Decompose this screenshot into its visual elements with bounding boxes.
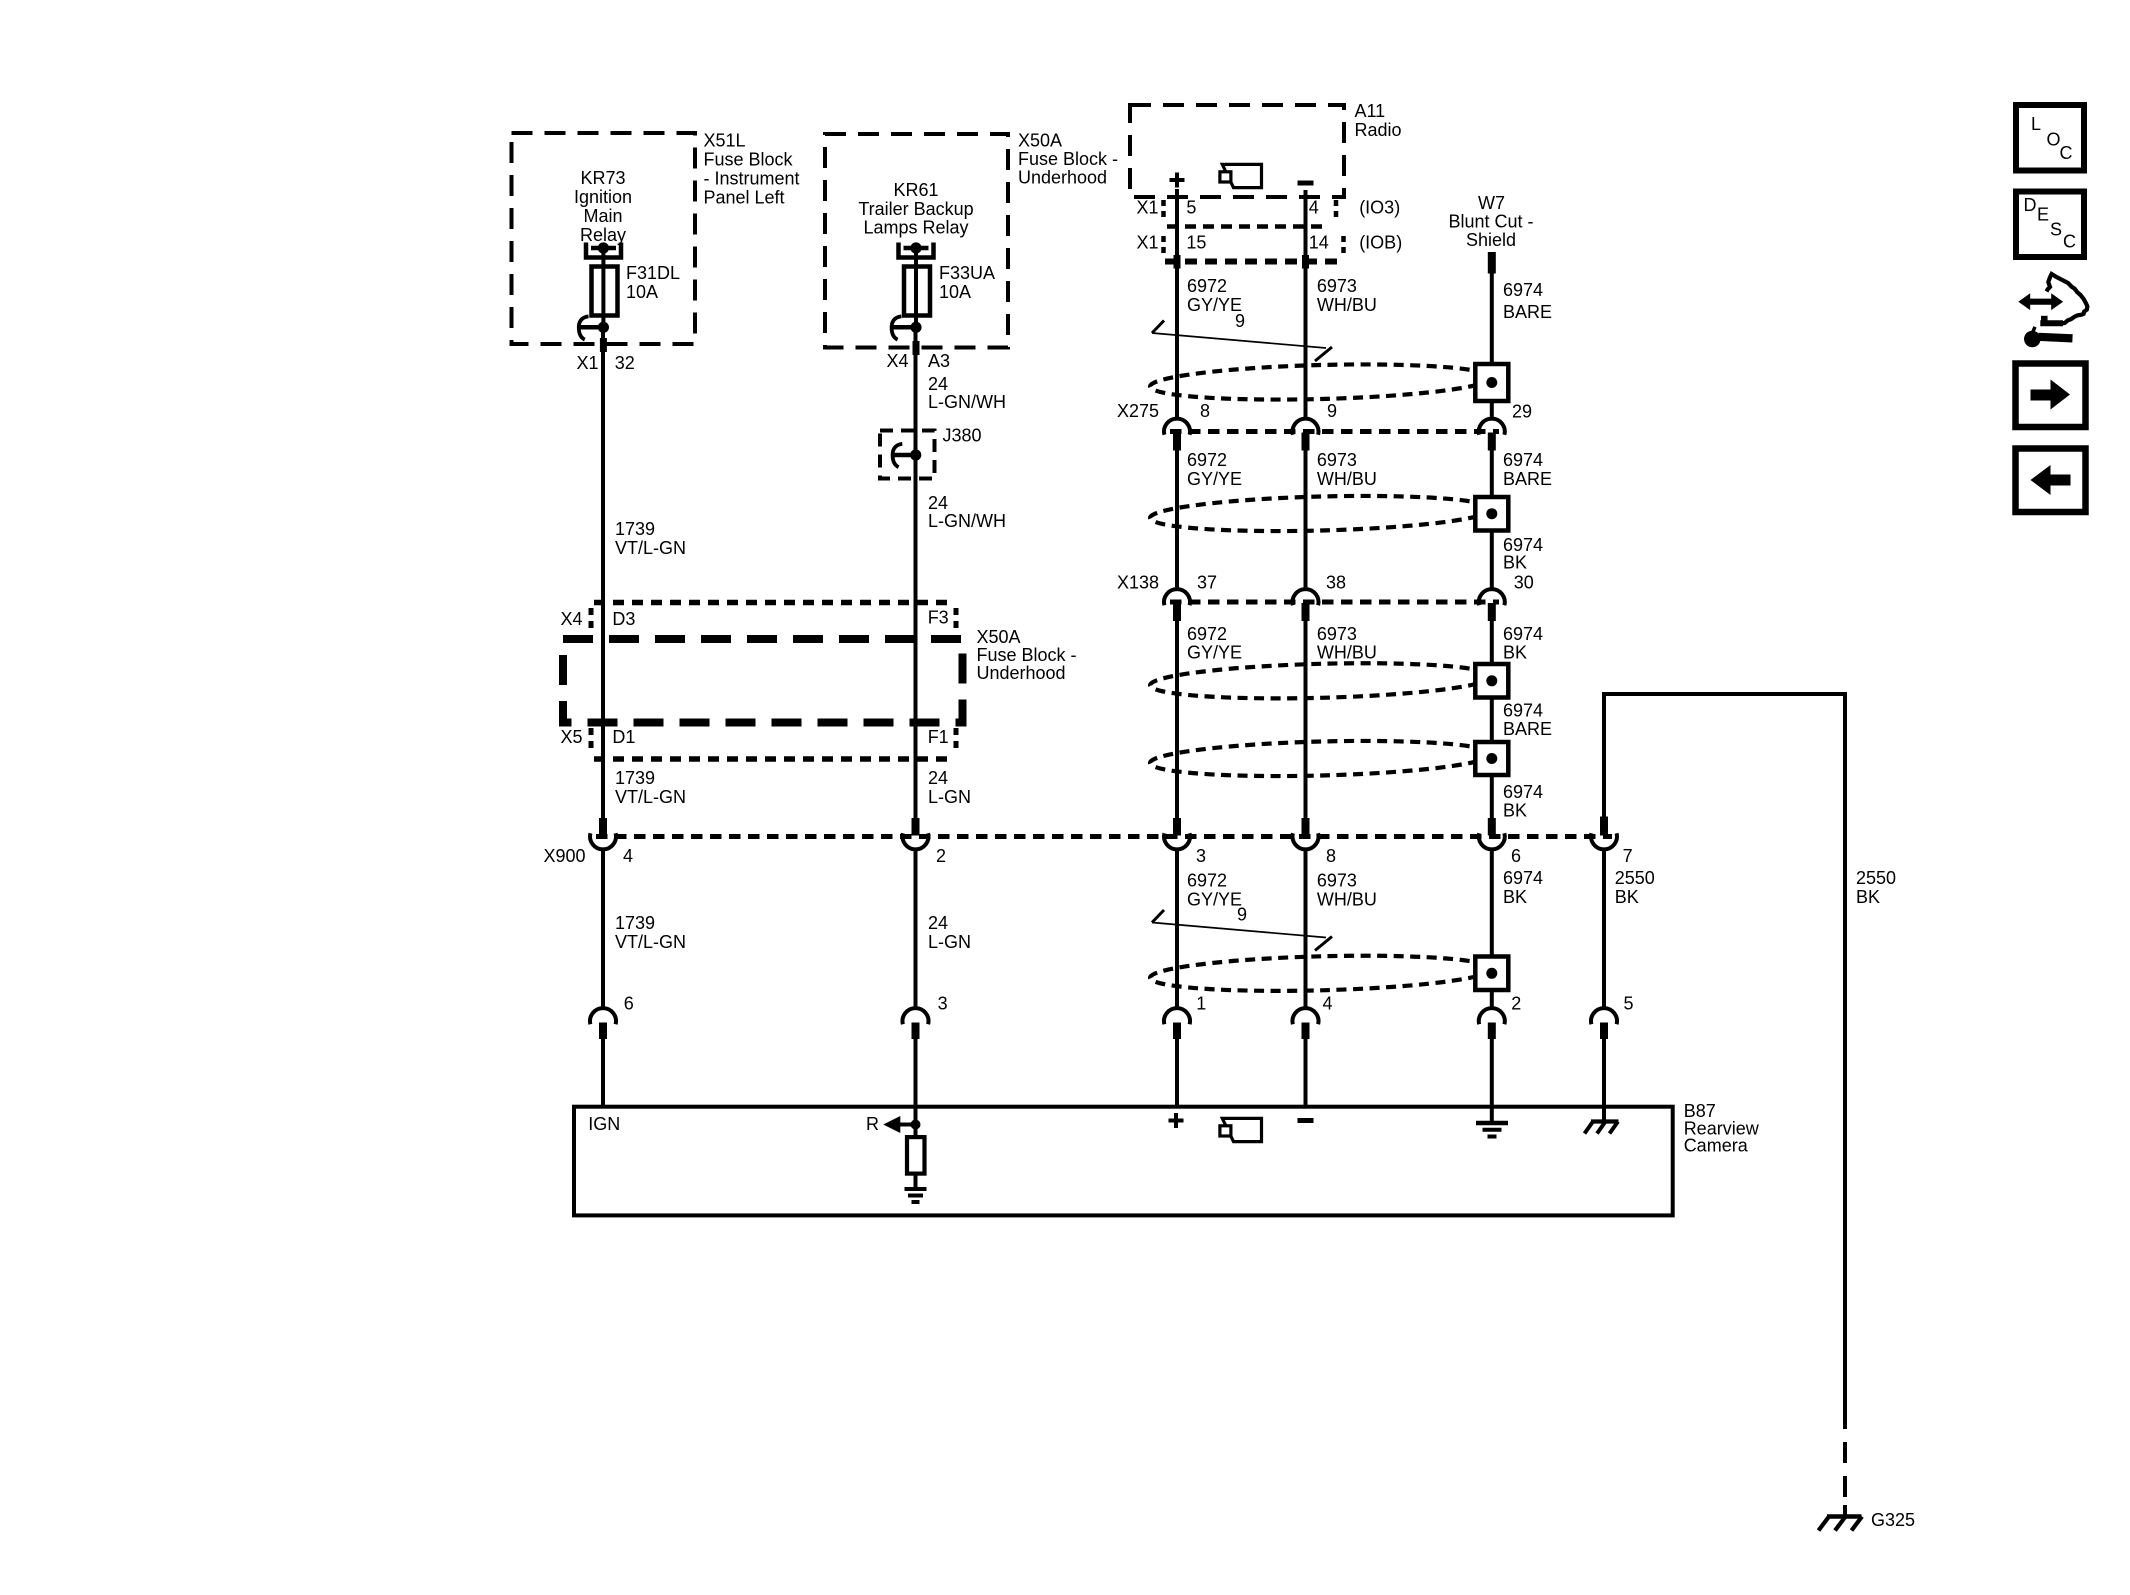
- svg-text:6974: 6974: [1503, 782, 1543, 802]
- svg-text:BK: BK: [1503, 801, 1527, 821]
- svg-text:F3: F3: [928, 608, 949, 628]
- svg-text:1739: 1739: [615, 768, 655, 788]
- svg-text:Lamps Relay: Lamps Relay: [863, 218, 968, 238]
- wire 6972 segment 4: [1175, 849, 1179, 1009]
- wire 6973 segment 2: [1304, 451, 1308, 590]
- svg-text:9: 9: [1327, 401, 1337, 421]
- svg-text:37: 37: [1197, 573, 1217, 593]
- icon DESC button: [2016, 192, 2084, 258]
- connector X275 pin 8: [1164, 419, 1190, 451]
- connector X138 pin 38: [1293, 589, 1319, 621]
- wire 6972 segment 1: [1175, 189, 1179, 420]
- svg-text:X4: X4: [561, 609, 583, 629]
- relay KR73 switch contact: [579, 316, 609, 340]
- svg-text:KR61: KR61: [893, 180, 938, 200]
- connector X900 pin 8: [1293, 818, 1337, 866]
- shield tap box 5: [1475, 957, 1508, 991]
- svg-text:BARE: BARE: [1503, 302, 1552, 322]
- label X50A Fuse Block - Underhood (middle): [977, 627, 1077, 683]
- svg-text:VT/L-GN: VT/L-GN: [615, 538, 686, 558]
- svg-text:Fuse Block -: Fuse Block -: [977, 645, 1077, 665]
- label X51L Fuse Block - Instrument Panel Left: [704, 131, 800, 208]
- svg-text:4: 4: [623, 846, 633, 866]
- svg-text:9: 9: [1237, 905, 1247, 925]
- svg-text:S: S: [2050, 220, 2062, 240]
- svg-text:GY/YE: GY/YE: [1187, 890, 1242, 910]
- wire stubs to camera box: [603, 1039, 1604, 1107]
- svg-text:IGN: IGN: [588, 1114, 620, 1134]
- fuse block X50A heavy dashed box: [563, 639, 963, 723]
- svg-text:F33UA: F33UA: [939, 263, 995, 283]
- svg-text:2550: 2550: [1615, 868, 1655, 888]
- svg-text:X1: X1: [1137, 198, 1159, 218]
- svg-text:Radio: Radio: [1355, 120, 1402, 140]
- camera icon in B87: [1220, 1118, 1262, 1141]
- svg-text:WH/BU: WH/BU: [1317, 643, 1377, 663]
- svg-text:4: 4: [1309, 198, 1319, 218]
- wire 6974 segment 2: [1490, 451, 1494, 496]
- label 6974 BK mid: [1503, 535, 1543, 573]
- svg-text:X51L: X51L: [704, 131, 746, 151]
- wire 6974 to X275: [1490, 401, 1494, 420]
- svg-text:Underhood: Underhood: [977, 663, 1066, 683]
- fuse block X51L dashed box: [512, 133, 696, 344]
- pin tick wire4 at X1: [1302, 255, 1309, 269]
- wire 2550 BK short segment: [1602, 849, 1606, 1009]
- svg-text:X4: X4: [887, 351, 909, 371]
- connector X900 pin 7: [1591, 817, 1633, 867]
- icon LOC button: [2016, 105, 2084, 171]
- svg-text:J380: J380: [943, 426, 982, 446]
- svg-text:X5: X5: [561, 727, 583, 747]
- label 6974 BK lower: [1503, 868, 1543, 907]
- svg-text:X138: X138: [1117, 573, 1159, 593]
- shield tap box 3: [1475, 664, 1508, 698]
- top link wire 2550 BK: [1604, 694, 1845, 1429]
- wire 6974 segment 3: [1490, 531, 1494, 590]
- svg-text:Underhood: Underhood: [1018, 168, 1107, 188]
- label 6974 BARE row A: [1503, 280, 1552, 322]
- camera connector pin 1: [1164, 994, 1206, 1040]
- svg-text:6973: 6973: [1317, 450, 1357, 470]
- wire 6973 segment 4: [1304, 849, 1308, 1009]
- wire 6973 segment 1: [1304, 190, 1308, 420]
- connector X1 row IO3: [1164, 200, 1337, 227]
- R arrow: [866, 1114, 921, 1134]
- resistor R internal: [907, 1137, 925, 1174]
- svg-text:8: 8: [1200, 401, 1210, 421]
- svg-text:O: O: [2047, 130, 2061, 150]
- svg-text:- Instrument: - Instrument: [704, 169, 800, 189]
- camera connector pin 3: [903, 994, 948, 1040]
- svg-text:2: 2: [1511, 994, 1521, 1014]
- svg-text:VT/L-GN: VT/L-GN: [615, 932, 686, 952]
- label 6972 GY/YE row A: [1187, 276, 1242, 315]
- svg-text:24: 24: [928, 768, 948, 788]
- wire 6974 segment 6: [1490, 775, 1494, 819]
- svg-text:R: R: [866, 1114, 879, 1134]
- pin tick wire3 at X1: [1174, 255, 1181, 269]
- svg-text:10A: 10A: [626, 282, 658, 302]
- svg-text:1: 1: [1196, 994, 1206, 1014]
- svg-text:6974: 6974: [1503, 701, 1543, 721]
- fuse F33UA: [904, 267, 930, 316]
- label 6973 WH/BU row D: [1317, 624, 1377, 663]
- label KR73 Ignition Main Relay: [574, 168, 632, 245]
- svg-text:(IOB): (IOB): [1359, 233, 1402, 253]
- svg-text:GY/YE: GY/YE: [1187, 643, 1242, 663]
- svg-text:15: 15: [1186, 233, 1206, 253]
- svg-text:6973: 6973: [1317, 871, 1357, 891]
- svg-text:1739: 1739: [615, 913, 655, 933]
- wire KR61 to fuse: [914, 248, 918, 267]
- svg-text:32: 32: [615, 353, 635, 373]
- svg-text:Fuse Block: Fuse Block: [704, 150, 794, 170]
- svg-text:BARE: BARE: [1503, 719, 1552, 739]
- svg-text:F1: F1: [928, 727, 949, 747]
- wire to internal ground: [914, 1174, 918, 1187]
- twisted pair ellipse 3: [1150, 659, 1493, 702]
- svg-text:6974: 6974: [1503, 280, 1543, 300]
- label 24 L-GN/WH upper: [928, 374, 1006, 412]
- labels X5 D1 F1: [561, 727, 949, 747]
- pin tick wire1 at X51L box bottom: [600, 338, 607, 352]
- svg-text:WH/BU: WH/BU: [1317, 469, 1377, 489]
- camera icon in radio: [1220, 164, 1262, 187]
- twisted pair ellipse 1: [1150, 361, 1493, 404]
- svg-text:C: C: [2063, 232, 2076, 252]
- label B87 Rearview Camera: [1684, 1101, 1760, 1156]
- svg-text:2550: 2550: [1856, 868, 1896, 888]
- svg-text:10A: 10A: [939, 282, 971, 302]
- radio A11 dashed box: [1130, 105, 1344, 197]
- wire 1739 VT/L-GN segment 3: [601, 849, 605, 1009]
- plus terminal radio: [1170, 173, 1185, 188]
- connector X275 pin 29: [1479, 419, 1505, 451]
- svg-text:3: 3: [1196, 846, 1206, 866]
- svg-text:X50A: X50A: [1018, 131, 1062, 151]
- svg-text:5: 5: [1624, 994, 1634, 1014]
- pin tick wire2 at X50A box bottom: [913, 341, 920, 355]
- wire R internal: [914, 1107, 918, 1137]
- svg-text:Fuse Block -: Fuse Block -: [1018, 149, 1118, 169]
- svg-text:8: 8: [1326, 846, 1336, 866]
- relay KR61 switch contact: [892, 316, 922, 340]
- twisted pair ellipse 5: [1150, 952, 1493, 995]
- connector X138 pin 37: [1164, 589, 1190, 621]
- svg-text:X275: X275: [1117, 401, 1159, 421]
- svg-text:WH/BU: WH/BU: [1317, 295, 1377, 315]
- svg-text:KR73: KR73: [580, 168, 625, 188]
- label 6972 GY/YE row D: [1187, 624, 1242, 663]
- label 1739 VT/L-GN mid: [615, 768, 686, 807]
- connector X1 row IOB: [1164, 236, 1344, 262]
- svg-text:X50A: X50A: [977, 627, 1021, 647]
- svg-text:24: 24: [928, 374, 948, 394]
- label 2550 BK right: [1856, 868, 1896, 907]
- fuse block X50A upper dashed box: [825, 134, 1008, 348]
- crossing symbol 9 upper: [1152, 311, 1332, 361]
- svg-text:9: 9: [1235, 311, 1245, 331]
- svg-text:A11: A11: [1355, 101, 1386, 121]
- svg-text:D: D: [2024, 195, 2037, 215]
- svg-text:BARE: BARE: [1503, 469, 1552, 489]
- svg-text:GY/YE: GY/YE: [1187, 469, 1242, 489]
- svg-text:Panel Left: Panel Left: [704, 188, 785, 208]
- internal earth ground: [905, 1189, 927, 1202]
- labels X138 37 38 30: [1117, 573, 1534, 593]
- wire 1739 VT/L-GN segment 1: [601, 332, 605, 819]
- wire 6972 segment 2: [1175, 451, 1179, 590]
- wire 24 L-GN segment 3: [914, 849, 918, 1009]
- svg-text:6972: 6972: [1187, 276, 1227, 296]
- svg-text:Relay: Relay: [580, 225, 626, 245]
- earth ground wire5: [1476, 1107, 1508, 1137]
- svg-text:24: 24: [928, 913, 948, 933]
- svg-text:E: E: [2037, 205, 2049, 225]
- svg-text:(IO3): (IO3): [1359, 198, 1400, 218]
- label 6974 BK row D: [1503, 624, 1543, 663]
- fuse block X50A lower connector row X5 D1 F1: [591, 728, 956, 759]
- svg-text:6974: 6974: [1503, 624, 1543, 644]
- labels X4 D3 F3: [561, 608, 949, 630]
- label F33UA 10A: [939, 263, 995, 302]
- svg-text:F31DL: F31DL: [626, 263, 680, 283]
- svg-text:GY/YE: GY/YE: [1187, 295, 1242, 315]
- fuse F31DL: [592, 267, 618, 316]
- svg-text:6: 6: [624, 994, 634, 1014]
- label KR61 Trailer Backup Lamps Relay: [858, 180, 973, 238]
- wire 6974 segment 1: [1490, 274, 1494, 365]
- label 2550 BK short: [1615, 868, 1655, 907]
- svg-text:L: L: [2031, 114, 2041, 134]
- label 24 L-GN mid: [928, 768, 971, 807]
- svg-text:VT/L-GN: VT/L-GN: [615, 787, 686, 807]
- svg-text:24: 24: [928, 493, 948, 513]
- svg-text:6972: 6972: [1187, 450, 1227, 470]
- svg-text:Shield: Shield: [1466, 230, 1516, 250]
- svg-text:14: 14: [1309, 233, 1329, 253]
- icon previous arrow button: [2016, 449, 2086, 513]
- shield tap box 4: [1475, 742, 1508, 775]
- svg-text:1739: 1739: [615, 519, 655, 539]
- svg-text:6: 6: [1511, 846, 1521, 866]
- wire 2550 BK dashed end: [1843, 1442, 1847, 1512]
- camera connector pin 2: [1479, 994, 1522, 1040]
- wire KR73 to fuse: [601, 248, 605, 267]
- svg-text:L-GN: L-GN: [928, 932, 971, 952]
- svg-text:4: 4: [1323, 994, 1333, 1014]
- blunt cut stub W7: [1488, 252, 1496, 274]
- label 6974 BARE row E: [1503, 701, 1552, 740]
- rearview camera B87 box: [574, 1107, 1673, 1216]
- connector X900 pin 3: [1164, 818, 1206, 866]
- label 6974 BK row F: [1503, 782, 1543, 821]
- svg-text:X900: X900: [544, 846, 586, 866]
- fuse block X50A lower connector row X4 D3 F3: [591, 603, 956, 633]
- connector X900 pin 6: [1479, 818, 1521, 866]
- connector row X900 dashed line: [596, 834, 1612, 839]
- wire 6972 segment 3: [1175, 621, 1179, 819]
- svg-text:BK: BK: [1503, 887, 1527, 907]
- camera connector pin 6: [590, 994, 634, 1040]
- icon next arrow button: [2016, 364, 2086, 428]
- svg-text:6972: 6972: [1187, 871, 1227, 891]
- chassis ground wire6: [1585, 1107, 1619, 1134]
- label 1739 VT/L-GN upper: [615, 519, 686, 558]
- label F31DL 10A: [626, 263, 680, 302]
- svg-text:7: 7: [1623, 846, 1633, 866]
- svg-text:Blunt Cut -: Blunt Cut -: [1448, 212, 1533, 232]
- label 6973 WH/BU row A: [1317, 276, 1377, 315]
- relay KR61 bus contact: [899, 242, 934, 257]
- svg-text:29: 29: [1512, 402, 1532, 422]
- wire 6974 segment 8: [1490, 990, 1494, 1009]
- label 6972 GY/YE row B: [1187, 450, 1242, 489]
- label X50A Fuse Block - Underhood (top): [1018, 131, 1118, 188]
- connector X275 pin 9: [1293, 419, 1319, 451]
- label 6972 GY/YE lower: [1187, 871, 1242, 910]
- wire 6974 segment 7: [1490, 849, 1494, 957]
- svg-text:6974: 6974: [1503, 868, 1543, 888]
- svg-text:D1: D1: [612, 727, 635, 747]
- splice J380 dashed box: [880, 431, 935, 479]
- svg-text:6972: 6972: [1187, 624, 1227, 644]
- svg-text:L-GN/WH: L-GN/WH: [928, 392, 1006, 412]
- splice J380 contact: [893, 444, 922, 467]
- svg-text:Main: Main: [583, 206, 622, 226]
- wire 24 L-GN/WH segment: [914, 332, 918, 819]
- svg-text:BK: BK: [1615, 887, 1639, 907]
- svg-text:BK: BK: [1856, 887, 1880, 907]
- svg-text:D3: D3: [612, 609, 635, 629]
- svg-text:A3: A3: [928, 351, 950, 371]
- icon wiring tool: [2018, 274, 2087, 347]
- svg-text:3: 3: [938, 994, 948, 1014]
- shield tap box 1: [1475, 364, 1508, 401]
- svg-text:X1: X1: [577, 353, 599, 373]
- label 1739 VT/L-GN lower: [615, 913, 686, 952]
- camera connector pin 4: [1293, 994, 1333, 1040]
- svg-text:BK: BK: [1503, 553, 1527, 573]
- connector X900 pin 2: [903, 818, 947, 866]
- ground G325: [1819, 1505, 1863, 1531]
- minus terminal camera: [1298, 1118, 1314, 1123]
- label 24 L-GN/WH lower: [928, 493, 1006, 531]
- svg-text:38: 38: [1326, 573, 1346, 593]
- label 24 L-GN lower: [928, 913, 971, 952]
- connector row X275 dashed line: [1170, 429, 1499, 434]
- label A11 Radio: [1355, 101, 1402, 140]
- wire 6974 segment 4: [1490, 621, 1494, 664]
- twisted pair ellipse 2: [1150, 492, 1493, 535]
- svg-text:6973: 6973: [1317, 624, 1357, 644]
- wire 6973 segment 3: [1304, 621, 1308, 819]
- relay KR73 bus contact: [586, 242, 621, 257]
- svg-text:5: 5: [1186, 198, 1196, 218]
- label W7 Blunt Cut - Shield: [1448, 193, 1533, 250]
- svg-text:W7: W7: [1478, 193, 1505, 213]
- wire 6974 segment 5: [1490, 698, 1494, 743]
- svg-text:L-GN/WH: L-GN/WH: [928, 511, 1006, 531]
- twisted pair ellipse 4: [1150, 737, 1493, 780]
- svg-text:Ignition: Ignition: [574, 187, 632, 207]
- connector row X138 dashed line: [1170, 600, 1499, 605]
- connector X138 pin 30: [1479, 589, 1505, 621]
- svg-text:X1: X1: [1137, 233, 1159, 253]
- label X4 A3: [887, 351, 951, 371]
- label X1 32: [577, 353, 635, 373]
- shield tap box 2: [1475, 497, 1508, 531]
- label 6973 WH/BU lower: [1317, 871, 1377, 910]
- svg-text:L-GN: L-GN: [928, 787, 971, 807]
- minus terminal radio: [1298, 181, 1314, 186]
- label 6973 WH/BU row B: [1317, 450, 1377, 489]
- label 6974 BARE row B: [1503, 450, 1552, 489]
- svg-text:WH/BU: WH/BU: [1317, 890, 1377, 910]
- connector X900 pin 4: [590, 818, 633, 866]
- plus terminal camera: [1169, 1113, 1184, 1128]
- labels X1 15 14 (IOB): [1137, 233, 1403, 253]
- svg-text:G325: G325: [1871, 1510, 1915, 1530]
- labels X275 8 9 29: [1117, 401, 1532, 422]
- crossing symbol 9 lower: [1152, 905, 1332, 951]
- svg-text:30: 30: [1514, 573, 1534, 593]
- labels X1 5 4 (IO3): [1137, 198, 1401, 218]
- svg-text:6974: 6974: [1503, 450, 1543, 470]
- svg-text:Camera: Camera: [1684, 1136, 1749, 1156]
- svg-text:Trailer Backup: Trailer Backup: [858, 199, 973, 219]
- camera connector pin 5: [1591, 994, 1634, 1040]
- svg-text:2: 2: [936, 846, 946, 866]
- svg-text:6973: 6973: [1317, 276, 1357, 296]
- svg-text:C: C: [2060, 143, 2073, 163]
- svg-text:BK: BK: [1503, 643, 1527, 663]
